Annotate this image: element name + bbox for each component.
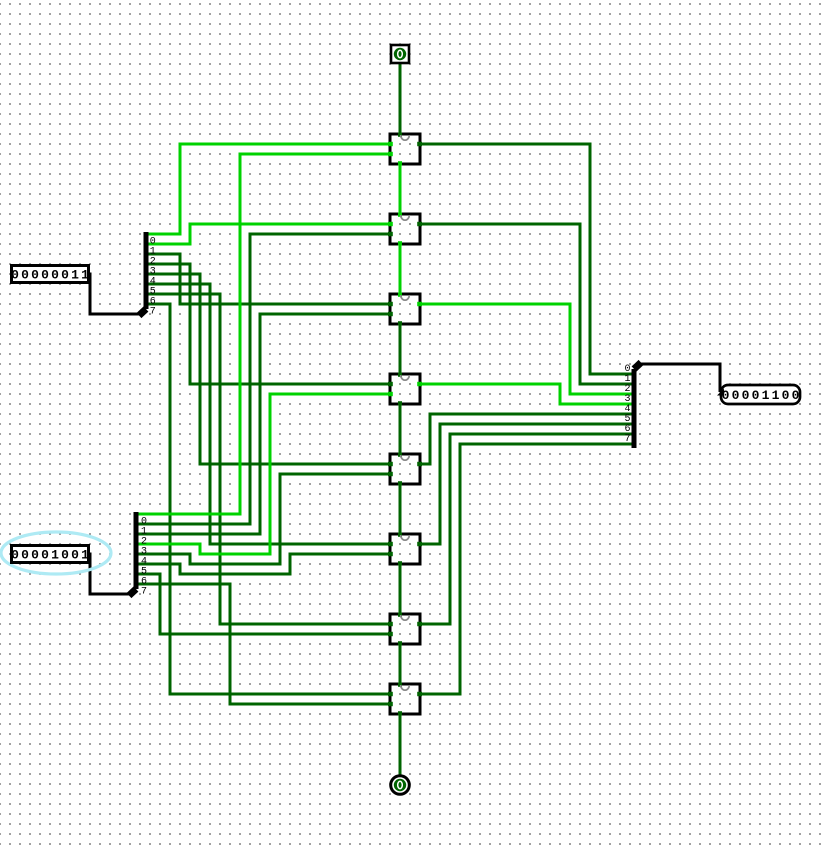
svg-text:1: 1 [762, 388, 770, 403]
wire B5 splitter2 leg5 to FA6 [137, 554, 393, 574]
wire carry c8 FA8 to cout pin [399, 712, 402, 777]
svg-text:7: 7 [624, 434, 630, 445]
full-adder subcircuit U1 (bit 0) [388, 133, 422, 166]
splitter SP2 (input B fan-out) [129, 512, 147, 597]
carry-out pin 0 (bottom) [391, 776, 410, 795]
svg-text:0: 0 [61, 547, 69, 562]
wire A3 splitter1 leg3 to FA4 [147, 264, 393, 384]
svg-text:0: 0 [732, 388, 740, 403]
input pin A value 00000011 [11, 266, 89, 283]
wire S6 FA7 to splitter3 leg6 [418, 434, 634, 624]
wire carry c7 FA7 to FA8 [399, 642, 402, 687]
svg-text:1: 1 [51, 547, 59, 562]
svg-text:0: 0 [31, 267, 39, 282]
svg-text:7: 7 [150, 306, 156, 317]
wire S1 FA2 to splitter3 leg1 [418, 224, 634, 384]
wire bus input B pin to splitter2 [88, 554, 130, 594]
full-adder subcircuit U5 (bit 4) [388, 453, 422, 486]
wire B2 splitter2 leg2 to FA3 [137, 314, 393, 534]
wire B7 splitter2 leg7 to FA8 [137, 584, 393, 704]
full-adder subcircuit U7 (bit 6) [388, 613, 422, 646]
svg-text:0: 0 [71, 547, 79, 562]
wire B3 splitter2 leg3 to FA4 [137, 394, 393, 554]
svg-text:1: 1 [71, 267, 79, 282]
wire S3 FA4 to splitter3 leg3 [418, 384, 634, 404]
splitter fan-out bar [129, 589, 136, 596]
wire A5 splitter1 leg5 to FA6 [147, 284, 393, 544]
selection halo [1, 532, 111, 574]
svg-text:0: 0 [41, 267, 49, 282]
svg-text:1: 1 [81, 547, 89, 562]
splitter SP3 (sum fan-in) [624, 363, 641, 449]
wire A2 splitter1 leg2 to FA3 [147, 254, 393, 304]
wire A6 splitter1 leg6 to FA7 [147, 294, 393, 624]
svg-text:0: 0 [11, 547, 19, 562]
carry-in pin 0 (top) [391, 45, 409, 63]
full-adder subcircuit U2 (bit 1) [388, 213, 422, 246]
svg-text:0: 0 [792, 388, 800, 403]
wire carry c3 FA3 to FA4 [399, 322, 402, 377]
full-adder subcircuit U6 (bit 5) [388, 533, 422, 566]
splitter fan-out bar [634, 363, 641, 370]
wire A0 splitter1 leg0 to FA1 [147, 144, 393, 234]
wire bus splitter3 to output pin [640, 364, 720, 392]
wire carry c0 const to FA1 [399, 64, 402, 137]
svg-text:0: 0 [722, 388, 730, 403]
svg-text:7: 7 [141, 586, 147, 597]
wire B1 splitter2 leg1 to FA2 [137, 234, 393, 524]
wire S7 FA8 to splitter3 leg7 [418, 444, 634, 694]
wire A7 splitter1 leg7 to FA8 [147, 304, 393, 694]
full-adder subcircuit U3 (bit 2) [388, 293, 422, 326]
svg-text:0: 0 [41, 547, 49, 562]
svg-text:1: 1 [772, 388, 780, 403]
svg-text:0: 0 [752, 388, 760, 403]
wire B4 splitter2 leg4 to FA5 [137, 474, 393, 564]
input pin B value 00001001 [11, 546, 89, 563]
svg-text:0: 0 [782, 388, 790, 403]
wire S0 FA1 to splitter3 leg0 [418, 144, 634, 374]
output pin S value 00001100 [717, 385, 800, 404]
wire carry c1 FA1 to FA2 [399, 162, 402, 217]
wire carry c6 FA6 to FA7 [399, 562, 402, 617]
wire carry c5 FA5 to FA6 [399, 482, 402, 537]
svg-text:0: 0 [31, 547, 39, 562]
wire bus input A pin to splitter1 [88, 274, 140, 314]
wire A4 splitter1 leg4 to FA5 [147, 274, 393, 464]
svg-text:0: 0 [61, 267, 69, 282]
splitter SP1 (input A fan-out) [139, 232, 156, 317]
wire carry c4 FA4 to FA5 [399, 402, 402, 457]
svg-text:1: 1 [81, 267, 89, 282]
splitter fan-out bar [139, 309, 146, 316]
wire B0 splitter2 leg0 to FA1 [137, 154, 393, 514]
svg-text:0: 0 [21, 267, 29, 282]
wire S5 FA6 to splitter3 leg5 [418, 424, 634, 544]
svg-text:0: 0 [11, 267, 19, 282]
wire A1 splitter1 leg1 to FA2 [147, 224, 393, 244]
svg-text:0: 0 [51, 267, 59, 282]
wire S2 FA3 to splitter3 leg2 [418, 304, 634, 394]
wire B6 splitter2 leg6 to FA7 [137, 574, 393, 634]
svg-text:0: 0 [742, 388, 750, 403]
svg-text:0: 0 [21, 547, 29, 562]
full-adder subcircuit U4 (bit 3) [388, 373, 422, 406]
wire carry c2 FA2 to FA3 [399, 242, 402, 297]
full-adder subcircuit U8 (bit 7) [388, 683, 422, 716]
wire S4 FA5 to splitter3 leg4 [418, 414, 634, 464]
